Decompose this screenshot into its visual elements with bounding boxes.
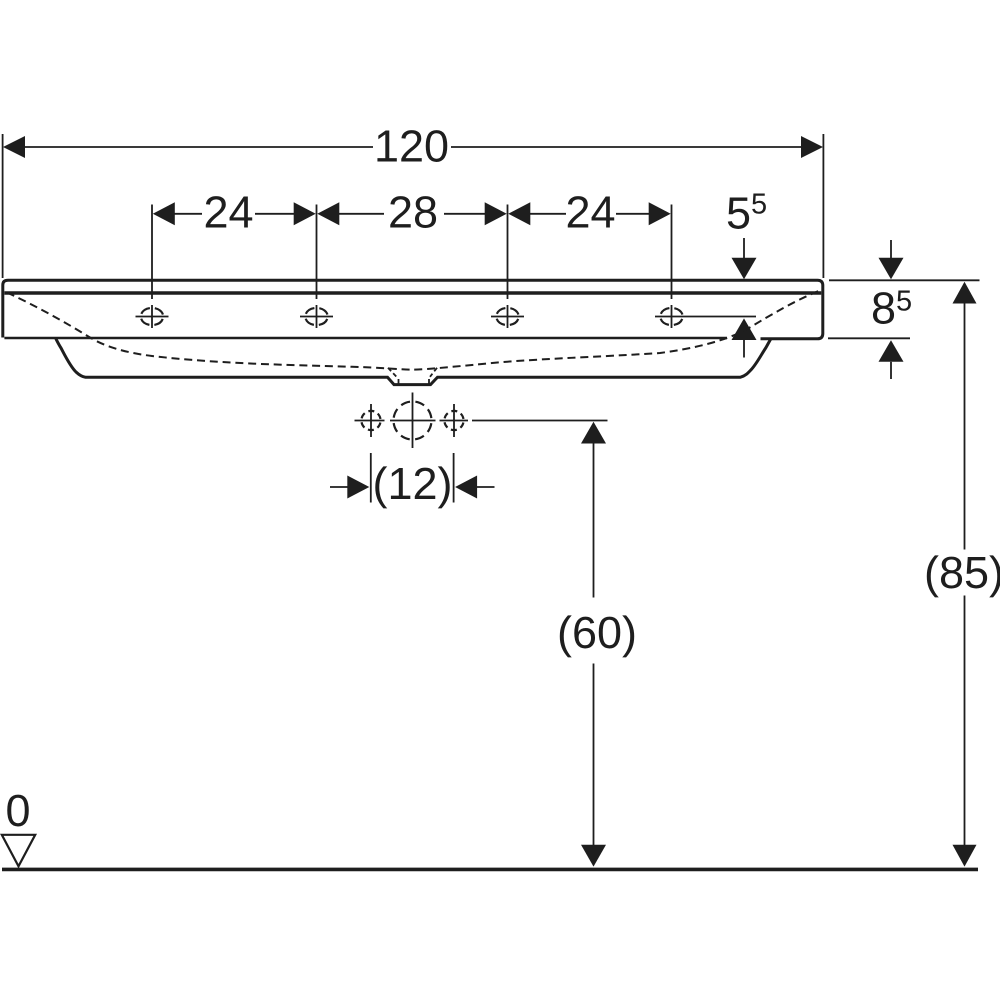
basin outer outline bbox=[3, 280, 823, 339]
dimension line 120 bbox=[24, 146, 373, 148]
tap hole 1 bbox=[136, 305, 169, 328]
hidden drain recess (dashed) bbox=[388, 368, 397, 377]
tap hole 2 bbox=[300, 305, 333, 328]
dimension line 24 right bbox=[529, 213, 566, 215]
leader arrow for 5.5 dim (up to hole axis) bbox=[732, 318, 757, 340]
svg-text:85: 85 bbox=[871, 283, 912, 334]
svg-text:28: 28 bbox=[388, 187, 438, 238]
floor line bbox=[2, 868, 978, 872]
hidden bowl contour (dashed) bbox=[7, 291, 820, 370]
deck mounting hole left bbox=[355, 404, 385, 437]
svg-text:0: 0 bbox=[5, 785, 30, 836]
datum triangle bbox=[2, 835, 35, 867]
svg-text:24: 24 bbox=[203, 187, 253, 238]
8.5 up arrow bbox=[879, 340, 904, 362]
deck mounting hole centre bbox=[390, 393, 436, 449]
extension line left of overall width bbox=[2, 134, 4, 278]
tap hole 3 bbox=[491, 305, 524, 328]
leader arrow for 5.5 dim (down to rim top) bbox=[743, 238, 745, 258]
deck mounting hole right bbox=[440, 404, 469, 437]
dimension line 28 bbox=[338, 213, 384, 215]
svg-text:55: 55 bbox=[726, 188, 767, 239]
dimension (85) vertical bbox=[953, 282, 977, 304]
dimension (12) bbox=[370, 453, 372, 503]
basin body bottom line bbox=[4, 337, 727, 340]
svg-text:24: 24 bbox=[565, 187, 615, 238]
8.5 down arrow bbox=[890, 240, 892, 259]
basin inner rim line bbox=[4, 291, 821, 294]
axis line to height dimension bbox=[472, 420, 608, 422]
tap hole 4 with extended axis line bbox=[655, 305, 756, 328]
dimension (60) vertical bbox=[581, 422, 606, 444]
dimension line 24 left bbox=[174, 213, 202, 215]
svg-text:(60): (60) bbox=[557, 607, 637, 658]
svg-text:(12): (12) bbox=[372, 458, 452, 509]
reference line basin bottom (8.5 dim) bbox=[828, 337, 910, 339]
svg-text:120: 120 bbox=[374, 121, 449, 172]
basin apron outline bbox=[56, 339, 771, 385]
svg-text:(85): (85) bbox=[924, 547, 1000, 598]
extension line right of overall width bbox=[822, 134, 824, 278]
reference line rim top (8.5 dim) bbox=[829, 279, 980, 281]
extension lines for hole spacing dims bbox=[151, 205, 153, 300]
